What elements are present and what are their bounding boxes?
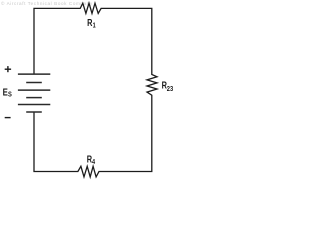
svg-text:E: E <box>3 87 8 98</box>
svg-text:1: 1 <box>93 22 96 30</box>
svg-text:23: 23 <box>167 85 174 93</box>
svg-text:© Aircraft Technical Book Comp: © Aircraft Technical Book Company <box>1 0 93 6</box>
svg-text:4: 4 <box>92 158 95 166</box>
svg-text:S: S <box>8 91 12 99</box>
